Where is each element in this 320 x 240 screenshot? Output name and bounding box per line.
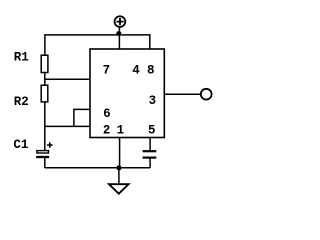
resistor R1 body	[41, 55, 48, 72]
svg-text:5: 5	[148, 124, 156, 138]
wire junction down to IC pin 4	[118, 35, 120, 49]
wire pin 6 down to pin 2 wire	[73, 109, 75, 127]
svg-text:C1: C1	[13, 138, 28, 152]
wire down to ground symbol	[118, 168, 120, 184]
wire C2 to ground rail	[149, 158, 151, 168]
ground symbol triangle	[109, 184, 129, 194]
junction dot on ground rail	[116, 165, 121, 170]
ground rail	[45, 167, 150, 169]
output terminal circle	[201, 89, 212, 100]
svg-text:R2: R2	[14, 95, 29, 109]
svg-text:3: 3	[149, 94, 157, 108]
svg-text:6: 6	[103, 107, 111, 121]
wire IC pin 5 to C2	[149, 138, 151, 152]
plus sign inside power terminal	[116, 18, 123, 25]
svg-text:1: 1	[117, 124, 125, 138]
wire power rail	[45, 34, 150, 36]
svg-text:R1: R1	[14, 50, 29, 64]
capacitor C2 top plate	[143, 150, 157, 152]
svg-text:4: 4	[132, 64, 140, 78]
svg-text:2: 2	[103, 124, 111, 138]
capacitor C2 bottom plate	[143, 157, 157, 159]
capacitor C1 positive plate	[37, 151, 49, 153]
power terminal V+ circle	[115, 16, 126, 27]
capacitor C1 negative plate	[36, 156, 49, 158]
junction dot at power rail	[116, 31, 121, 36]
wire IC pin 6 stub	[74, 108, 90, 110]
wire IC pin 1 to ground rail	[119, 138, 121, 168]
capacitor C1 plus sign	[47, 142, 53, 148]
svg-text:8: 8	[147, 64, 155, 78]
op-amp/timer IC U1 box	[90, 49, 164, 138]
resistor R2 body	[41, 85, 48, 102]
wire rail down to R1	[44, 34, 46, 56]
wire R1 to R2	[44, 73, 46, 86]
wire IC pin 2 to R2/C1 node	[45, 125, 90, 127]
wire IC pin 3 output	[164, 93, 200, 95]
wire power circle to junction	[118, 28, 120, 35]
wire rail end down to IC pin 8	[149, 34, 151, 49]
wire C1 to ground rail	[44, 158, 46, 168]
wire R1/R2 junction to IC pin 7	[45, 78, 90, 80]
svg-text:7: 7	[103, 64, 111, 78]
wire R2 down to C1	[44, 102, 46, 150]
